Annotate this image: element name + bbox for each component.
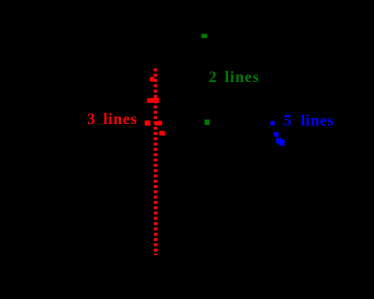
blue data point B4: [279, 140, 285, 146]
svg-text:lines: lines: [225, 69, 260, 86]
svg-text:2: 2: [209, 69, 217, 86]
blue data point B1: [270, 121, 274, 125]
green data point G2: [205, 120, 210, 125]
svg-text:lines: lines: [301, 112, 335, 129]
red data point R3: [145, 120, 151, 125]
red dotted fitted line (3-lines series): [154, 68, 158, 255]
red data point R5b: [161, 131, 165, 135]
svg-text:3: 3: [87, 111, 95, 128]
svg-text:5: 5: [284, 112, 292, 129]
red data point R5a: [159, 131, 164, 136]
blue data point B3: [276, 138, 282, 143]
red data point R2b: [152, 98, 157, 103]
red data point R4a: [154, 121, 159, 125]
red data point R2c: [155, 98, 160, 103]
green data point G1: [202, 34, 208, 38]
blue data point B2: [274, 132, 279, 137]
red data point R4b: [158, 121, 163, 125]
svg-text:lines: lines: [103, 111, 137, 128]
red data point R1: [150, 77, 155, 82]
red data point R2a: [147, 98, 152, 103]
